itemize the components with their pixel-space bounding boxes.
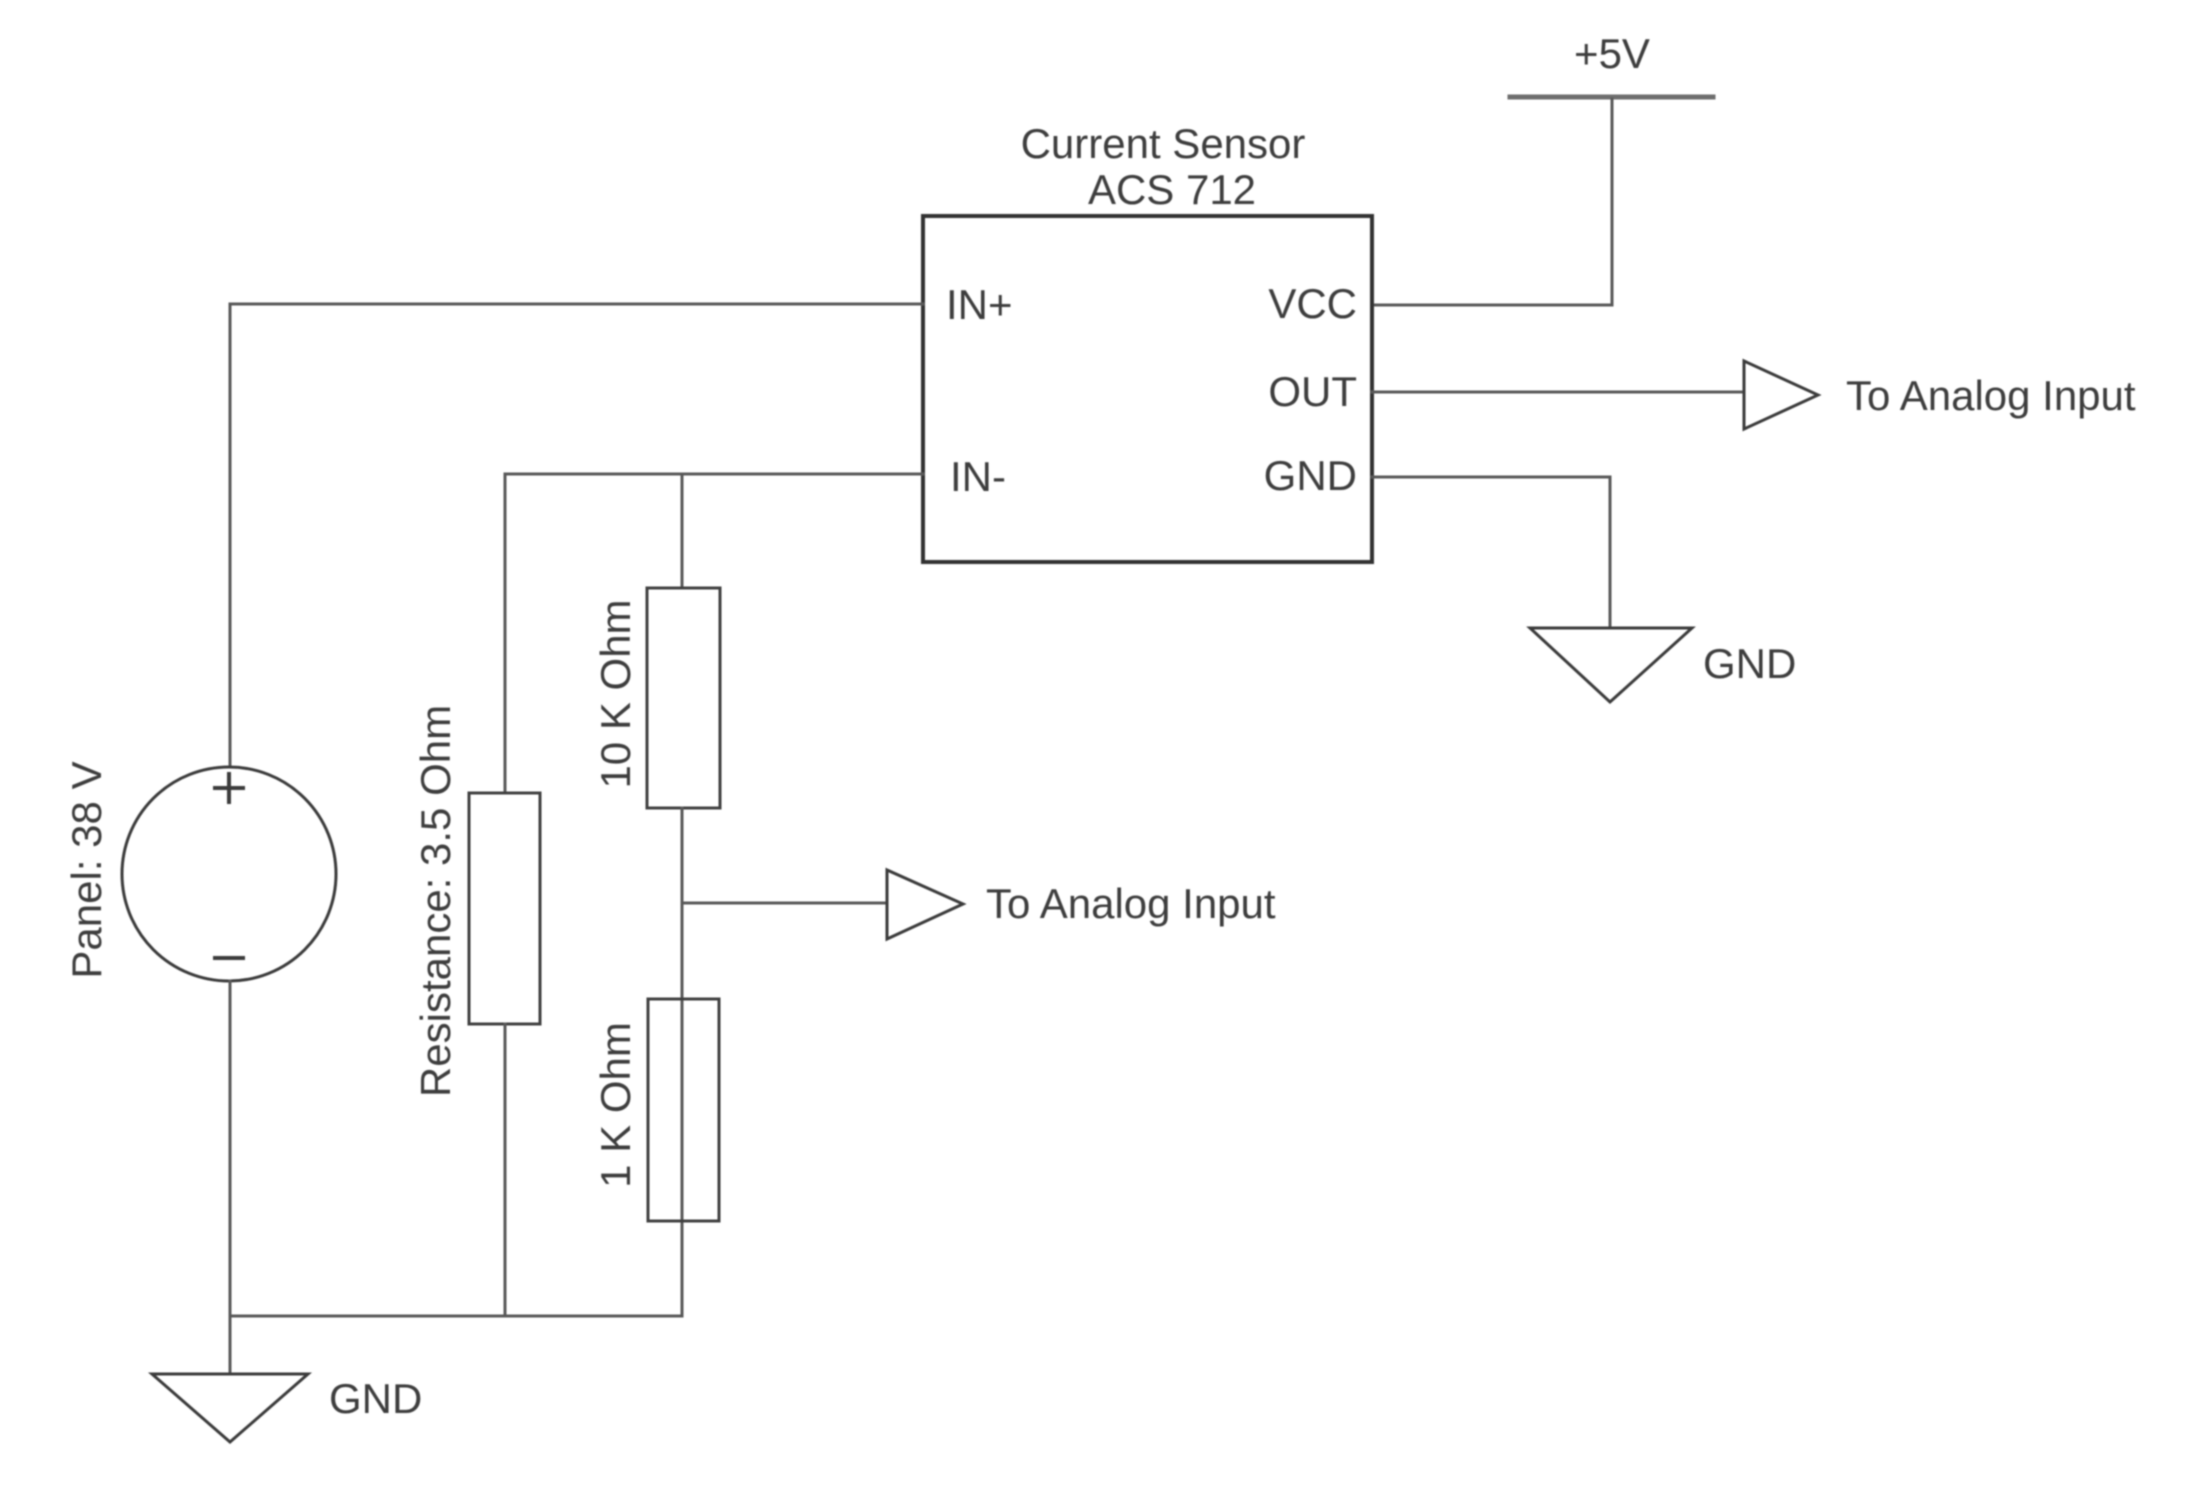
wire GND pin to ground xyxy=(1372,477,1610,628)
ground symbol bottom xyxy=(152,1374,308,1442)
ground symbol right xyxy=(1530,628,1692,702)
svg-text:Resistance: 3.5 Ohm: Resistance: 3.5 Ohm xyxy=(412,705,459,1097)
wire source bottom to rail xyxy=(229,981,232,1316)
svg-text:GND: GND xyxy=(329,1375,422,1422)
wire IN+ net xyxy=(230,304,923,767)
wire OUT xyxy=(1372,391,1744,394)
svg-text:IN-: IN- xyxy=(950,453,1006,500)
power rail +5V bar xyxy=(1510,95,1713,100)
wire divider tap xyxy=(682,902,886,905)
wire bottom rail xyxy=(230,1315,682,1318)
voltage source plus sign xyxy=(215,774,243,802)
svg-text:Panel: 38 V: Panel: 38 V xyxy=(63,761,110,978)
IC U1 Current Sensor ACS712 box xyxy=(923,216,1372,562)
svg-text:10 K Ohm: 10 K Ohm xyxy=(592,599,639,788)
wire IN- net xyxy=(505,474,923,793)
svg-text:IN+: IN+ xyxy=(946,281,1013,328)
resistor R2 10 K Ohm body xyxy=(647,588,720,808)
wire R1 bottom xyxy=(504,1024,507,1316)
svg-text:1 K Ohm: 1 K Ohm xyxy=(592,1022,639,1188)
resistor R3 1 K Ohm body xyxy=(648,999,719,1221)
svg-text:+5V: +5V xyxy=(1574,30,1650,77)
wire R2 bottom to rail xyxy=(681,808,684,1316)
svg-text:ACS 712: ACS 712 xyxy=(1088,166,1256,213)
svg-text:OUT: OUT xyxy=(1268,368,1357,415)
resistor R1 3.5 Ohm body xyxy=(469,793,540,1024)
svg-text:To Analog Input: To Analog Input xyxy=(1846,372,2136,419)
arrow to analog input (divider) xyxy=(887,870,963,939)
arrow to analog input (OUT) xyxy=(1744,361,1818,429)
svg-text:GND: GND xyxy=(1264,452,1357,499)
voltage source minus sign xyxy=(215,956,243,960)
svg-text:VCC: VCC xyxy=(1268,280,1357,327)
svg-text:GND: GND xyxy=(1703,640,1796,687)
wire rail to ground xyxy=(229,1316,232,1374)
voltage source V1 circle xyxy=(122,767,336,981)
svg-text:To Analog Input: To Analog Input xyxy=(986,880,1276,927)
svg-text:Current Sensor: Current Sensor xyxy=(1021,120,1306,167)
wire VCC to +5V xyxy=(1372,99,1612,305)
